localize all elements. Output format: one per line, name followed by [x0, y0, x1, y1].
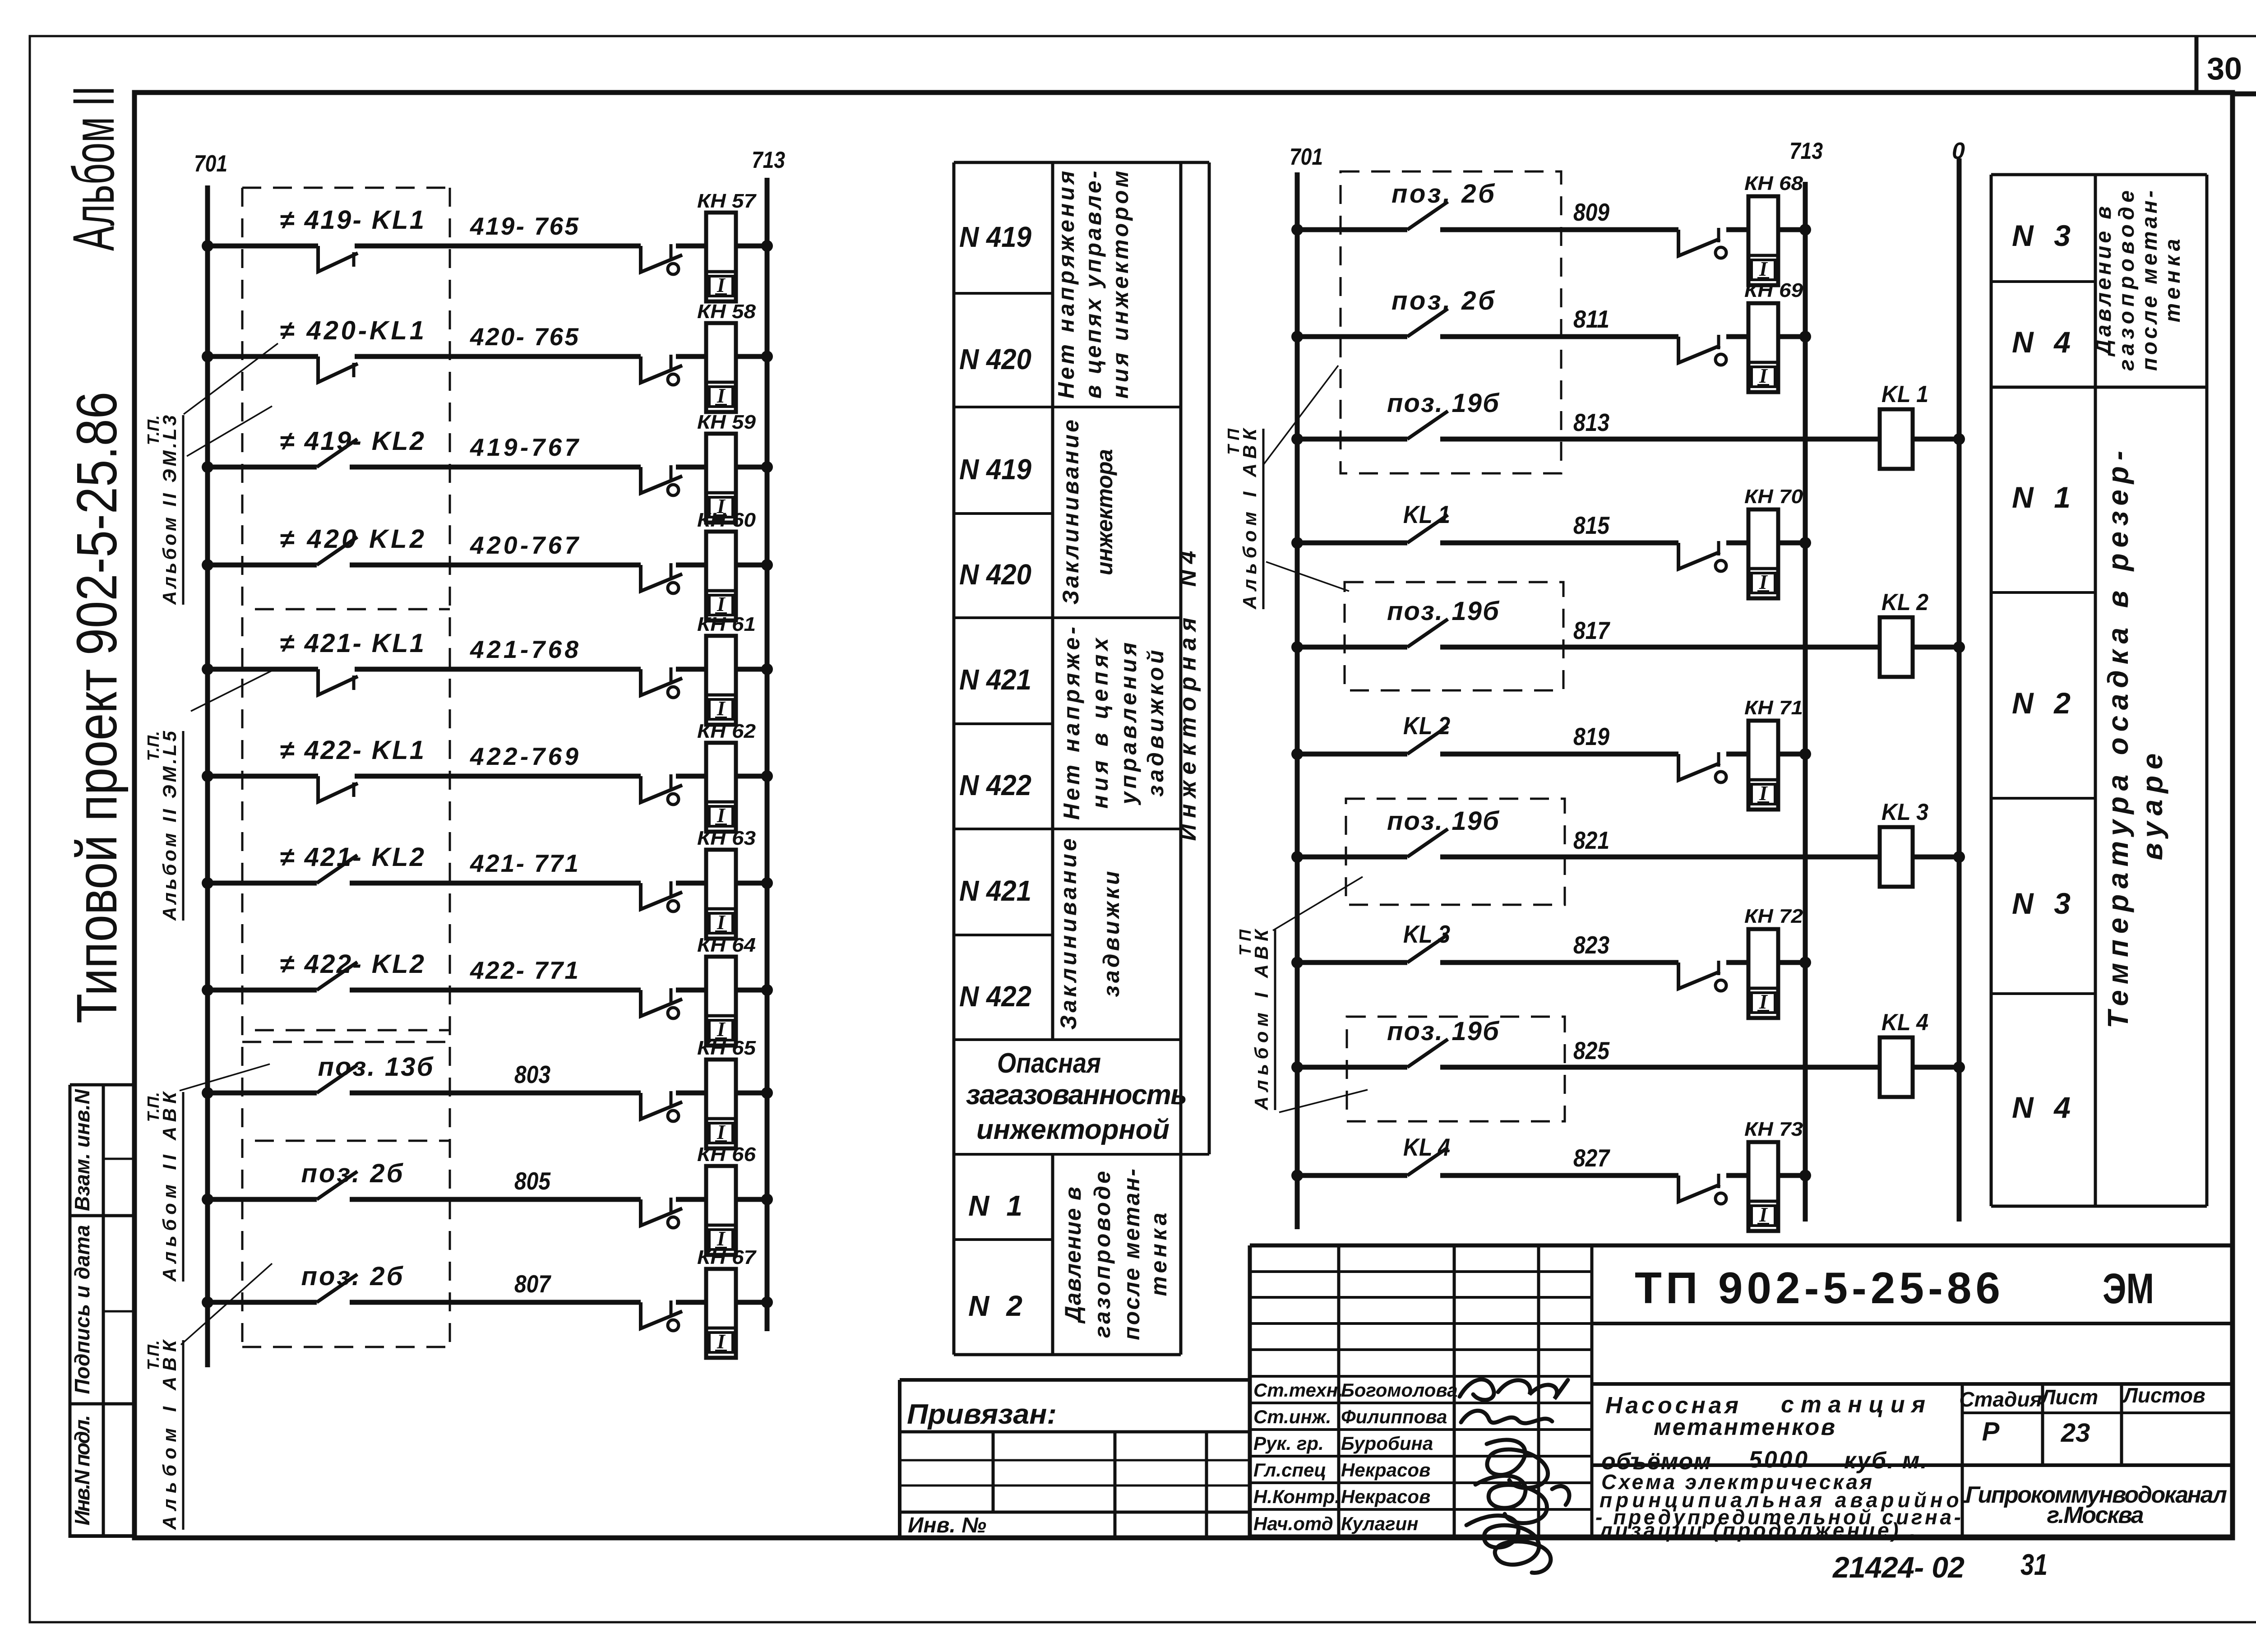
- wire from bus 701 to contact &#8800; 419- KL1: [208, 244, 318, 249]
- node: bus 713 / rung 819: [1799, 748, 1811, 760]
- bus 713 (left ladder): [765, 178, 770, 1331]
- middle legend table: [954, 162, 1209, 1355]
- wire into КН 57: [676, 244, 706, 249]
- svg-text:Буробина: Буробина: [1341, 1433, 1433, 1454]
- contact &#8800; 420-KL1 (break contact): [318, 356, 358, 382]
- svg-text:КН 58: КН 58: [697, 301, 756, 323]
- contact &#8800; 419- KL1 (break contact): [318, 246, 358, 272]
- wire КН 67 to bus 713: [736, 1300, 767, 1305]
- svg-text:Температура осадка в резер-: Температура осадка в резер-: [2102, 451, 2134, 1028]
- svg-text:Нет напряже-: Нет напряже-: [1059, 627, 1084, 820]
- svg-text:Альбом II АВК: Альбом II АВК: [159, 1091, 180, 1282]
- svg-text:поз. 19б: поз. 19б: [1387, 389, 1500, 418]
- reference note Т.П. Альбом I АВК: [144, 1339, 183, 1530]
- wire segment circuit 821 (crosses bus 713): [1440, 855, 1880, 860]
- test pushbutton contact before КН 62: [641, 776, 682, 802]
- wire КН 64 to bus 713: [736, 988, 767, 993]
- svg-text:КН 63: КН 63: [697, 827, 756, 849]
- contact KL 3: [1407, 935, 1448, 963]
- svg-text:N 422: N 422: [959, 769, 1031, 801]
- test pushbutton contact before КН 61: [641, 669, 682, 695]
- svg-text:I: I: [1759, 570, 1768, 593]
- svg-text:КН 73: КН 73: [1744, 1118, 1803, 1140]
- svg-text:Привязан:: Привязан:: [907, 1399, 1057, 1430]
- svg-text:I: I: [717, 911, 726, 934]
- node: bus 713 / rung 803: [761, 1087, 773, 1099]
- contact &#8800; 420 KL2 (NO contact): [317, 537, 357, 565]
- indicator КН 69: [1748, 303, 1778, 392]
- wire from bus 701 to contact KL 1: [1297, 541, 1407, 546]
- node: bus 701 / rung 420-767: [202, 559, 213, 571]
- wire from bus 701 to contact KL 2: [1297, 752, 1407, 757]
- node: bus 701 / rung 803: [202, 1087, 213, 1099]
- relay coil KL 4: [1880, 1037, 1913, 1097]
- svg-text:КН 61: КН 61: [697, 613, 756, 635]
- contact KL 2: [1407, 726, 1448, 754]
- wire into КН 60: [676, 563, 706, 568]
- svg-text:лизации (продолжение) .: лизации (продолжение) .: [1599, 1518, 1915, 1542]
- wire КН 60 to bus 713: [736, 563, 767, 568]
- wire from bus 701 to contact &#8800; 419- KL2: [208, 465, 317, 470]
- svg-text:805: 805: [514, 1167, 551, 1195]
- svg-text:I: I: [717, 384, 726, 407]
- svg-text:I: I: [1759, 782, 1768, 805]
- bus 701 (left ladder): [205, 185, 210, 1367]
- leader line to ЭМ.L3 box: [184, 343, 278, 414]
- contact KL 4: [1407, 1148, 1448, 1175]
- svg-text:Кулагин: Кулагин: [1341, 1513, 1419, 1534]
- svg-text:поз. 19б: поз. 19б: [1387, 1017, 1500, 1046]
- svg-text:Богомолова: Богомолова: [1341, 1379, 1458, 1401]
- wire КН 69 to bus 713: [1778, 334, 1805, 339]
- svg-text:N 1: N 1: [2012, 481, 2071, 514]
- svg-text:газопроводе: газопроводе: [2115, 190, 2139, 371]
- svg-text:KL 4: KL 4: [1403, 1133, 1450, 1161]
- wire segment after contact, circuit 420-767: [350, 563, 641, 568]
- wire КН 62 to bus 713: [736, 774, 767, 779]
- svg-text:инжектора: инжектора: [1092, 449, 1117, 575]
- svg-text:Некрасов: Некрасов: [1341, 1459, 1430, 1481]
- contact поз. 2б (NO contact): [317, 1171, 357, 1199]
- reference note Т.П. Альбом I АВК: [1224, 427, 1263, 610]
- indicator КН 70: [1748, 509, 1778, 598]
- wire into КН 63: [676, 881, 706, 886]
- wire КН 66 to bus 713: [736, 1197, 767, 1202]
- indicator КН 71: [1748, 721, 1778, 810]
- node: bus 701 / rung 421- 771: [202, 877, 213, 889]
- svg-text:поз. 13б: поз. 13б: [318, 1052, 434, 1082]
- svg-text:I: I: [717, 1120, 726, 1143]
- indicator КН 66: [706, 1166, 736, 1255]
- svg-text:N 4: N 4: [2012, 1091, 2071, 1124]
- svg-text:КН 57: КН 57: [697, 190, 757, 212]
- wire segment after contact, circuit 421- 771: [350, 881, 641, 886]
- node: bus 713 / rung 422- 771: [761, 984, 773, 996]
- node: bus 713 / rung 421-768: [761, 663, 773, 675]
- node: bus 713 / rung 827: [1799, 1170, 1811, 1181]
- wire into КН 59: [676, 465, 706, 470]
- indicator КН 62: [706, 743, 736, 832]
- svg-text:Листов: Листов: [2122, 1384, 2205, 1407]
- svg-text:поз. 2б: поз. 2б: [301, 1262, 404, 1291]
- contact &#8800; 422- KL1 (break contact): [318, 776, 358, 802]
- node: bus 701 / rung 420- 765: [202, 351, 213, 362]
- svg-text:0: 0: [1952, 138, 1965, 164]
- frame top extension under sheet-number box: [2233, 92, 2256, 97]
- wire from bus 701 to contact поз. 19б: [1297, 437, 1407, 442]
- test pushbutton contact before КН 72: [1678, 963, 1720, 989]
- node: bus 701 / rung 817: [1291, 641, 1303, 653]
- svg-text:KL 3: KL 3: [1403, 920, 1450, 948]
- leader line АВК I to rung 807: [181, 1263, 272, 1345]
- svg-text:Альбом II: Альбом II: [60, 86, 126, 251]
- wire segment after contact, circuit 807: [350, 1300, 641, 1305]
- svg-text:ЭМ: ЭМ: [2103, 1265, 2154, 1313]
- test pushbutton contact before КН 63: [641, 883, 682, 909]
- svg-text:Ст.инж.: Ст.инж.: [1253, 1406, 1331, 1427]
- svg-text:Нач.отд: Нач.отд: [1253, 1513, 1333, 1534]
- indicator КН 61: [706, 636, 736, 725]
- wire segment after contact, circuit 419- 765: [355, 244, 641, 249]
- svg-text:I: I: [717, 804, 726, 827]
- node: bus 701 / rung 825: [1291, 1061, 1303, 1073]
- svg-text:Альбом I АВК: Альбом I АВК: [159, 1339, 180, 1530]
- indicator КН 60: [706, 532, 736, 620]
- contact &#8800; 421- KL1 (break contact): [318, 669, 358, 695]
- node: bus 713 / rung 815: [1799, 537, 1811, 549]
- svg-text:КН 66: КН 66: [697, 1143, 756, 1166]
- svg-text:КН 62: КН 62: [697, 720, 756, 742]
- wire КН 72 to bus 713: [1778, 960, 1805, 965]
- wire segment after contact, circuit 422-769: [355, 774, 641, 779]
- wire segment after contact, circuit 422- 771: [350, 988, 641, 993]
- svg-text:поз. 2б: поз. 2б: [1392, 179, 1495, 208]
- bus 713 (right ladder): [1803, 182, 1808, 1222]
- test pushbutton contact before КН 68: [1678, 230, 1720, 256]
- svg-text:≠ 420-KL1: ≠ 420-KL1: [280, 316, 424, 345]
- svg-text:I: I: [717, 592, 726, 615]
- wire into КН 69: [1726, 334, 1748, 339]
- svg-text:КН 68: КН 68: [1744, 172, 1803, 194]
- wire segment circuit 809: [1440, 227, 1678, 232]
- svg-text:I: I: [717, 697, 726, 720]
- test pushbutton contact before КН 57: [641, 246, 682, 272]
- left stamp column boxes: [70, 1085, 134, 1538]
- wire KL 1 to bus 0: [1913, 437, 1959, 442]
- relay coil KL 1: [1880, 409, 1913, 469]
- svg-text:задвижкой: задвижкой: [1143, 650, 1168, 797]
- contact поз. 19б: [1407, 1039, 1448, 1067]
- node: bus 0 / rung 817: [1953, 641, 1965, 653]
- svg-text:N 2: N 2: [2012, 686, 2071, 720]
- test pushbutton contact before КН 65: [641, 1093, 682, 1119]
- wire КН 70 to bus 713: [1778, 541, 1805, 546]
- wire from bus 701 to contact &#8800; 420 KL2: [208, 563, 317, 568]
- node: bus 701 / rung 815: [1291, 537, 1303, 549]
- right legend table: [1991, 175, 2207, 1206]
- node: bus 701 / rung 807: [202, 1296, 213, 1308]
- test pushbutton contact before КН 70: [1678, 543, 1720, 569]
- wire segment after contact, circuit 803: [350, 1091, 641, 1096]
- svg-text:825: 825: [1573, 1037, 1610, 1064]
- svg-text:Альбом II ЭМ.L5: Альбом II ЭМ.L5: [159, 731, 180, 921]
- svg-text:Стадия: Стадия: [1959, 1388, 2042, 1411]
- leader line АВК II to rung 803: [180, 1064, 270, 1091]
- indicator КН 64: [706, 957, 736, 1046]
- node: bus 713 / rung 809: [1799, 224, 1811, 236]
- leader line to dashed box 1: [1263, 366, 1338, 465]
- wire КН 68 to bus 713: [1778, 227, 1805, 232]
- node: bus 713 / rung 823: [1799, 957, 1811, 968]
- indicator КН 63: [706, 850, 736, 939]
- svg-text:N 420: N 420: [959, 343, 1031, 375]
- contact &#8800; 422- KL2 (NO contact): [317, 962, 357, 990]
- binding table: [900, 1380, 1250, 1536]
- wire into КН 66: [676, 1197, 706, 1202]
- svg-text:N 421: N 421: [959, 663, 1031, 696]
- svg-text:Опасная: Опасная: [997, 1048, 1101, 1079]
- wire into КН 73: [1726, 1173, 1748, 1178]
- test pushbutton contact before КН 66: [641, 1199, 682, 1226]
- signature scribbles: [1460, 1379, 1569, 1573]
- svg-text:метантенков: метантенков: [1654, 1414, 1835, 1440]
- contact &#8800; 419- KL2 (NO contact): [317, 439, 357, 467]
- svg-text:Ст.техн.: Ст.техн.: [1253, 1379, 1343, 1401]
- node: bus 701 / rung 819: [1291, 748, 1303, 760]
- test pushbutton contact before КН 67: [641, 1302, 682, 1328]
- indicator КН 72: [1748, 929, 1778, 1018]
- node: bus 713 / rung 811: [1799, 331, 1811, 342]
- wire segment circuit 811: [1440, 334, 1678, 339]
- contact &#8800; 421- KL2 (NO contact): [317, 855, 357, 883]
- wire КН 73 to bus 713: [1778, 1173, 1805, 1178]
- test pushbutton contact before КН 64: [641, 990, 682, 1016]
- svg-text:Лист: Лист: [2040, 1385, 2098, 1409]
- node: bus 0 / rung 813: [1953, 433, 1965, 445]
- svg-text:827: 827: [1573, 1144, 1610, 1172]
- svg-text:823: 823: [1573, 931, 1609, 959]
- leader line to dashed box 4: [1279, 1090, 1368, 1112]
- leader line ЭМ.L3 to rung 419-767: [187, 406, 272, 456]
- svg-text:поз. 2б: поз. 2б: [1392, 286, 1495, 315]
- svg-text:Взам. инв.N: Взам. инв.N: [70, 1089, 94, 1211]
- indicator КН 73: [1748, 1142, 1778, 1231]
- svg-text:N 419: N 419: [959, 453, 1031, 486]
- svg-text:422- 771: 422- 771: [470, 956, 578, 984]
- test pushbutton contact before КН 69: [1678, 337, 1720, 363]
- node: bus 701 / rung 823: [1291, 957, 1303, 968]
- bus 0: [1957, 158, 1962, 1222]
- svg-text:Типовой проект 902-5-25.86: Типовой проект 902-5-25.86: [65, 392, 129, 1023]
- wire segment after contact, circuit 419-767: [350, 465, 641, 470]
- dashed boundary box 2: [1345, 582, 1563, 690]
- svg-text:после метан-: после метан-: [2138, 190, 2162, 371]
- svg-text:421- 771: 421- 771: [470, 849, 578, 877]
- svg-text:N 419: N 419: [959, 221, 1031, 253]
- test pushbutton contact before КН 73: [1678, 1175, 1720, 1202]
- wire КН 61 to bus 713: [736, 667, 767, 672]
- svg-text:KL 1: KL 1: [1403, 500, 1450, 528]
- wire КН 59 to bus 713: [736, 465, 767, 470]
- svg-text:N 1: N 1: [968, 1189, 1022, 1222]
- svg-text:Альбом I АВК: Альбом I АВК: [1239, 427, 1260, 610]
- wire into КН 67: [676, 1300, 706, 1305]
- svg-text:инжекторной: инжекторной: [976, 1114, 1170, 1145]
- svg-text:821: 821: [1573, 826, 1609, 854]
- dashed boundary box 3: [1346, 799, 1565, 905]
- svg-text:I: I: [717, 273, 726, 296]
- wire into КН 68: [1726, 227, 1748, 232]
- svg-text:KL 2: KL 2: [1882, 589, 1928, 615]
- node: bus 713 / rung 805: [761, 1194, 773, 1205]
- svg-text:КН 70: КН 70: [1744, 486, 1803, 508]
- svg-text:807: 807: [514, 1270, 551, 1298]
- wire segment circuit 819: [1440, 752, 1678, 757]
- svg-text:N 3: N 3: [2012, 219, 2071, 252]
- svg-text:N 422: N 422: [959, 980, 1031, 1013]
- svg-text:701: 701: [1290, 144, 1323, 170]
- indicator КН 65: [706, 1060, 736, 1148]
- svg-text:Рук. гр.: Рук. гр.: [1253, 1433, 1324, 1454]
- contact поз. 19б: [1407, 829, 1448, 857]
- node: bus 701 / rung 805: [202, 1194, 213, 1205]
- svg-text:Альбом II ЭМ.L3: Альбом II ЭМ.L3: [159, 415, 180, 605]
- svg-text:Гл.спец: Гл.спец: [1253, 1459, 1326, 1481]
- wire from bus 701 to contact &#8800; 420-KL1: [208, 354, 318, 359]
- wire КН 57 to bus 713: [736, 244, 767, 249]
- wire from bus 701 to contact KL 4: [1297, 1173, 1407, 1178]
- svg-text:KL 2: KL 2: [1403, 712, 1450, 740]
- wire from bus 701 to contact &#8800; 422- KL1: [208, 774, 318, 779]
- svg-text:в цепях управле-: в цепях управле-: [1081, 171, 1106, 399]
- svg-text:поз. 19б: поз. 19б: [1387, 597, 1500, 626]
- relay coil KL 2: [1880, 617, 1913, 677]
- svg-text:809: 809: [1573, 198, 1609, 226]
- svg-text:I: I: [1759, 990, 1768, 1013]
- svg-text:задвижки: задвижки: [1099, 871, 1124, 997]
- node: bus 713 / rung 420- 765: [761, 351, 773, 362]
- svg-text:KL 4: KL 4: [1882, 1009, 1928, 1036]
- svg-text:21424- 02: 21424- 02: [1832, 1550, 1965, 1584]
- reference note Т.П. Альбом II ЭМ.L3: [144, 415, 183, 605]
- svg-text:Филиппова: Филиппова: [1341, 1406, 1447, 1427]
- svg-text:N 3: N 3: [2012, 887, 2071, 920]
- svg-text:КН 67: КН 67: [697, 1246, 757, 1268]
- bus 701 (right ladder): [1295, 172, 1300, 1229]
- contact поз. 2б: [1407, 202, 1448, 230]
- svg-text:КН 65: КН 65: [697, 1037, 756, 1059]
- svg-text:Инв.N подл.: Инв.N подл.: [70, 1415, 94, 1526]
- svg-text:Подпись и дата: Подпись и дата: [70, 1225, 94, 1394]
- svg-text:Некрасов: Некрасов: [1341, 1486, 1430, 1507]
- node: bus 713 / rung 422-769: [761, 770, 773, 782]
- sheet number box: [2195, 36, 2199, 94]
- svg-text:803: 803: [514, 1060, 550, 1088]
- svg-text:713: 713: [752, 147, 785, 173]
- svg-text:817: 817: [1573, 616, 1610, 644]
- reference note Т.П. Альбом II ЭМ.L5: [144, 731, 183, 921]
- wire KL 4 to bus 0: [1913, 1065, 1959, 1070]
- wire from bus 701 to contact поз. 2б: [1297, 334, 1407, 339]
- wire from bus 701 to contact поз. 2б: [208, 1197, 317, 1202]
- svg-text:Н.Контр.: Н.Контр.: [1253, 1486, 1340, 1507]
- node: bus 701 / rung 421-768: [202, 663, 213, 675]
- svg-text:поз. 2б: поз. 2б: [301, 1159, 404, 1188]
- node: bus 701 / rung 419-767: [202, 461, 213, 473]
- dashed boundary box 1 (right ladder): [1341, 171, 1561, 473]
- svg-text:KL 3: KL 3: [1882, 799, 1928, 825]
- wire from bus 701 to contact поз. 13б: [208, 1091, 317, 1096]
- svg-text:I: I: [1759, 364, 1768, 387]
- leader line to dashed box 2: [1266, 562, 1349, 591]
- svg-text:Альбом I АВК: Альбом I АВК: [1251, 928, 1272, 1111]
- node: bus 0 / rung 821: [1953, 851, 1965, 863]
- wire from bus 701 to contact поз. 2б: [1297, 227, 1407, 232]
- svg-text:811: 811: [1573, 305, 1609, 333]
- svg-text:713: 713: [1789, 138, 1823, 164]
- svg-text:КН 64: КН 64: [697, 934, 756, 956]
- contact поз. 2б: [1407, 309, 1448, 337]
- svg-text:≠ 420 KL2: ≠ 420 KL2: [280, 524, 424, 554]
- node: bus 713 / rung 807: [761, 1296, 773, 1308]
- test pushbutton contact before КН 59: [641, 467, 682, 493]
- svg-text:30: 30: [2207, 51, 2242, 86]
- svg-text:КН 60: КН 60: [697, 509, 756, 531]
- svg-text:N 2: N 2: [968, 1290, 1022, 1322]
- svg-text:N 421: N 421: [959, 875, 1031, 907]
- wire into КН 58: [676, 354, 706, 359]
- wire into КН 72: [1726, 960, 1748, 965]
- node: bus 701 / rung 821: [1291, 851, 1303, 863]
- svg-text:г.Москва: г.Москва: [2047, 1502, 2144, 1528]
- svg-text:тенка: тенка: [1146, 1213, 1171, 1296]
- contact поз. 19б: [1407, 619, 1448, 647]
- indicator КН 57: [706, 213, 736, 301]
- svg-text:31: 31: [2020, 1548, 2048, 1581]
- wire КН 58 to bus 713: [736, 354, 767, 359]
- wire segment circuit 817 (crosses bus 713): [1440, 645, 1880, 650]
- wire КН 71 to bus 713: [1778, 752, 1805, 757]
- wire КН 63 to bus 713: [736, 881, 767, 886]
- svg-text:819: 819: [1573, 722, 1609, 750]
- indicator КН 59: [706, 434, 736, 523]
- node: bus 701 / rung 813: [1291, 433, 1303, 445]
- reference note Т.П. Альбом I АВК: [1236, 928, 1275, 1111]
- svg-text:I: I: [1759, 1203, 1768, 1226]
- contact поз. 2б (NO contact): [317, 1274, 357, 1302]
- node: bus 713 / rung 419- 765: [761, 240, 773, 252]
- relay coil KL 3: [1880, 827, 1913, 887]
- leader line ЭМ.L5 to rung 422-769: [191, 669, 276, 711]
- svg-text:КН 59: КН 59: [697, 411, 756, 433]
- wire into КН 71: [1726, 752, 1748, 757]
- node: bus 0 / rung 825: [1953, 1061, 1965, 1073]
- svg-text:КН 69: КН 69: [1744, 279, 1803, 301]
- indicator КН 67: [706, 1269, 736, 1358]
- wire into КН 65: [676, 1091, 706, 1096]
- svg-text:КН 71: КН 71: [1744, 697, 1803, 719]
- wire segment after contact, circuit 420- 765: [355, 354, 641, 359]
- node: bus 713 / rung 421- 771: [761, 877, 773, 889]
- wire segment circuit 827: [1440, 1173, 1678, 1178]
- svg-text:Инв. №: Инв. №: [908, 1513, 986, 1537]
- contact поз. 19б: [1407, 411, 1448, 439]
- svg-text:701: 701: [194, 151, 227, 177]
- svg-text:газопроводе: газопроводе: [1090, 1171, 1115, 1338]
- wire segment circuit 813 (crosses bus 713): [1440, 437, 1880, 442]
- test pushbutton contact before КН 71: [1678, 754, 1720, 780]
- wire from bus 701 to contact &#8800; 421- KL1: [208, 667, 318, 672]
